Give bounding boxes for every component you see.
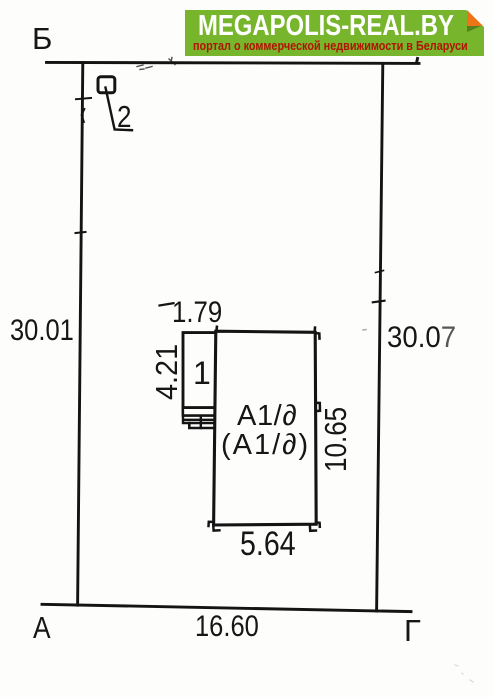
label dim 30.01 left: [10, 316, 74, 346]
label dim 5.64: [240, 527, 296, 561]
logo title: [198, 12, 454, 41]
building A1 right edge notch: [316, 403, 320, 411]
structure 2 leader line: [106, 88, 133, 131]
label building A1/d: [237, 402, 297, 431]
label corner Б: [32, 23, 52, 54]
logo megapolis-real.by: [185, 10, 484, 56]
building 1 steps: [189, 423, 214, 428]
label corner Г: [404, 615, 421, 646]
label dim 30.07 right: [387, 323, 456, 353]
node tick left boundary scribble: [82, 109, 85, 122]
label structure 2 number: [117, 101, 131, 132]
wire top boundary Б-Г side: [47, 59, 420, 64]
label building (A1/d): [221, 431, 310, 460]
node tick left boundary middle: [76, 232, 86, 233]
label building 1 number: [193, 357, 211, 389]
building A1 corner tick top-left: [215, 327, 218, 331]
building A1 main outline: [214, 331, 317, 525]
label dim 10.65 rotated: [320, 407, 351, 472]
dimension tick before 1.79: [160, 303, 174, 305]
wire bottom boundary А-Г side: [42, 604, 411, 611]
building A1 corner tick bottom-left: [209, 522, 220, 531]
wire left boundary А-Б side: [78, 63, 83, 606]
wire right boundary В-Г side: [377, 64, 383, 611]
scan specks below top line: [79, 58, 473, 683]
building A1 corner tick bottom-right: [310, 523, 320, 531]
label dim 1.79: [172, 298, 222, 328]
node tick right boundary: [373, 301, 385, 303]
structure 2 square: [98, 77, 115, 93]
node tick left boundary upper: [76, 98, 91, 99]
logo fold orange corner: [467, 10, 483, 26]
node tick right boundary top: [376, 271, 384, 273]
logo fold shadow: [467, 26, 481, 32]
logo subtitle: [193, 39, 468, 52]
label corner А: [33, 612, 51, 643]
label dim 16.60 bottom: [195, 612, 259, 642]
building 1 outline: [183, 333, 215, 408]
building 1 porch lines: [183, 408, 215, 416]
building A1 corner tick top-right: [315, 328, 320, 339]
label dim 4.21 rotated: [151, 344, 182, 400]
